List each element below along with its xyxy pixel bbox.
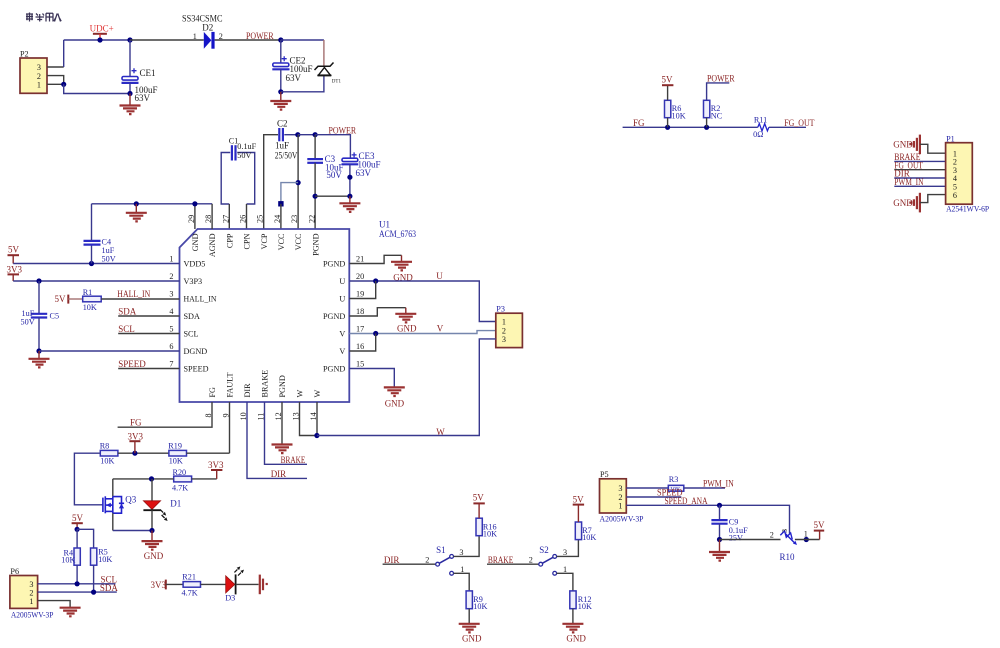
svg-text:3: 3 [459, 548, 463, 557]
svg-text:SPEED: SPEED [118, 359, 146, 369]
U1 left pin names [184, 260, 217, 374]
resistor R11 zigzag [758, 124, 769, 131]
svg-text:6: 6 [953, 191, 957, 200]
svg-text:DT1: DT1 [332, 79, 342, 84]
svg-text:PWM_IN: PWM_IN [894, 177, 924, 187]
U1 bottom pin names [208, 370, 322, 398]
U1 bottom pin numbers [204, 412, 318, 420]
power port 5V at R1 [55, 294, 69, 304]
svg-text:SPEED: SPEED [184, 365, 209, 374]
svg-text:PGND: PGND [323, 312, 345, 321]
zener DT1 [315, 40, 334, 75]
svg-text:GND: GND [462, 633, 482, 643]
wire pin29 riser [194, 204, 196, 229]
power port 5V at R10 [814, 520, 826, 540]
svg-text:BRAKE: BRAKE [261, 370, 270, 398]
power port 3V3 [7, 264, 23, 281]
svg-text:FG: FG [633, 118, 645, 128]
junction 5V split [75, 527, 80, 532]
svg-text:7: 7 [169, 360, 173, 369]
wire 5V to R5 [77, 529, 94, 548]
ground below R12 [562, 624, 583, 633]
junction W [314, 433, 319, 438]
wire FG_OUT to P1 pin3 [894, 169, 945, 171]
ground sideways top [909, 135, 920, 155]
wire pin24 riser [280, 204, 282, 229]
svg-text:3V3: 3V3 [208, 460, 224, 470]
potentiometer R10 [780, 531, 797, 545]
power port 5V at R16 [473, 493, 485, 519]
svg-text:PGND: PGND [323, 260, 345, 269]
svg-text:5V: 5V [662, 74, 674, 84]
svg-text:PGND: PGND [278, 375, 287, 397]
power port 5V [72, 513, 84, 529]
svg-text:3: 3 [502, 335, 506, 344]
svg-text:0Ω: 0Ω [753, 130, 763, 139]
svg-text:W: W [296, 390, 305, 398]
resistor R12 [570, 591, 576, 609]
svg-text:50V: 50V [21, 317, 35, 326]
wire pin21 [349, 255, 401, 263]
svg-text:V3P3: V3P3 [184, 277, 203, 286]
svg-text:SPEED_ANA: SPEED_ANA [665, 496, 708, 506]
ground below R9 [459, 624, 480, 633]
wire Q3 source rail [113, 530, 152, 532]
svg-text:19: 19 [356, 290, 364, 299]
svg-text:R1: R1 [83, 288, 93, 297]
junction AGND gnd [134, 201, 139, 206]
svg-text:W: W [313, 390, 322, 398]
LED D3 [226, 566, 244, 594]
wire D2 to POWER node [215, 39, 281, 41]
svg-text:C5: C5 [50, 312, 60, 321]
svg-text:3: 3 [563, 548, 567, 557]
junction PGND rail left [313, 194, 318, 199]
svg-text:3: 3 [618, 484, 622, 493]
svg-text:P6: P6 [10, 567, 19, 576]
resistor R2 [704, 100, 710, 117]
junction R10 right [804, 537, 809, 542]
wire R10 to 5V [795, 539, 820, 541]
ground pin21 [391, 255, 412, 270]
wire rail to D2 anode [130, 39, 204, 41]
transistor Q3 [103, 479, 124, 531]
svg-text:18: 18 [356, 307, 364, 316]
svg-text:V: V [437, 323, 444, 333]
svg-text:10K: 10K [83, 303, 97, 312]
resistor R8 [100, 450, 118, 456]
svg-text:P5: P5 [600, 470, 609, 479]
svg-text:SDA: SDA [184, 312, 200, 321]
svg-text:16: 16 [356, 342, 364, 351]
junction C9 top [717, 503, 722, 508]
junction R6 [665, 125, 670, 130]
svg-text:W: W [436, 427, 445, 437]
junction D1 top [149, 476, 154, 481]
svg-text:P3: P3 [496, 305, 505, 314]
svg-text:A2005WV-3P: A2005WV-3P [600, 514, 644, 523]
ground sideways bottom [909, 193, 920, 213]
ground below CE1 [120, 94, 141, 115]
svg-text:2: 2 [502, 326, 506, 335]
svg-text:26: 26 [239, 215, 248, 223]
wire pin25 riser to C2 [264, 135, 278, 229]
terminal square pin24 [278, 201, 283, 206]
junction R5 bottom [91, 590, 96, 595]
svg-text:50V: 50V [237, 151, 251, 160]
svg-text:GND: GND [893, 198, 913, 208]
ground pin15 [384, 387, 405, 396]
wire AGND rail [92, 203, 213, 205]
svg-text:SDA: SDA [100, 583, 119, 593]
svg-text:S1: S1 [436, 545, 446, 555]
junction U [373, 278, 378, 283]
resistor R9 [466, 591, 472, 609]
svg-text:U: U [339, 295, 345, 304]
svg-text:2: 2 [425, 556, 429, 565]
svg-text:1: 1 [563, 565, 567, 574]
svg-text:C4: C4 [102, 237, 112, 246]
wire gnd to P1 pin6 [920, 195, 946, 203]
connector P6 [10, 576, 38, 609]
ground below C5 [29, 351, 50, 367]
wire pin26 riser [246, 204, 248, 229]
wire pin28 riser [211, 204, 213, 229]
svg-text:2: 2 [770, 530, 774, 539]
junction C5 bottom [36, 348, 41, 353]
connector P1 [946, 143, 973, 205]
wire P6 pin1 to gnd [38, 601, 71, 608]
resistor R21 [183, 582, 200, 588]
wire R20 right [192, 478, 217, 480]
wire top rail middle [298, 134, 315, 136]
wire 3V3 to pin2 [13, 280, 179, 282]
power port 3V3 [151, 580, 167, 590]
wire 5V to R4 [76, 529, 78, 548]
svg-text:3V3: 3V3 [151, 580, 167, 590]
junction P2 gnd node [61, 82, 66, 87]
wire pin14 W [316, 402, 318, 436]
capacitor C4 [84, 204, 101, 264]
wire SCL pin5 [118, 333, 179, 335]
wire vertical to rail [63, 40, 65, 67]
svg-text:VCC: VCC [277, 233, 286, 250]
resistor R7 [575, 522, 581, 540]
svg-text:22: 22 [307, 215, 316, 223]
svg-text:ACM_6763: ACM_6763 [379, 229, 416, 239]
svg-text:DIR: DIR [271, 469, 287, 479]
power port 5V [8, 245, 20, 264]
resistor R1 [83, 296, 102, 302]
svg-text:FAULT: FAULT [226, 372, 235, 397]
svg-text:1: 1 [37, 80, 41, 89]
capacitor C9 [711, 505, 727, 539]
svg-text:POWER: POWER [329, 125, 357, 135]
wire pin8 FG [118, 402, 212, 427]
wire pin12 PGND [281, 402, 283, 444]
svg-text:Q3: Q3 [125, 495, 136, 505]
svg-text:SCL: SCL [118, 324, 135, 334]
resistor R3 [668, 485, 684, 493]
resistor R6 [665, 100, 671, 117]
wire pin18 [349, 308, 406, 316]
capacitor C3 [307, 135, 323, 229]
UDC+ bar [93, 34, 107, 40]
junction CE1 top [127, 37, 132, 42]
wire P2 pin3 to UDC+ rail [47, 66, 64, 68]
junction CE2 top [278, 37, 283, 42]
wire R12 to gnd [572, 609, 574, 624]
LED D1 [143, 479, 167, 531]
power port 5V at R6 [662, 74, 674, 85]
ground on AGND rail [126, 204, 147, 222]
wire P5 pin1 SPEED_ANA [626, 505, 789, 533]
svg-text:R10: R10 [780, 552, 796, 562]
svg-text:D1: D1 [170, 499, 181, 509]
wire R11 to FG_OUT [769, 126, 806, 128]
wire P2 pin1 stub [47, 83, 64, 85]
svg-text:PGND: PGND [311, 233, 320, 255]
svg-text:10K: 10K [578, 602, 592, 611]
svg-text:C2: C2 [277, 119, 288, 129]
power port 5V at R7 [573, 494, 585, 522]
junction R2 [704, 125, 709, 130]
wire POWER node to DT1 [281, 39, 324, 41]
wire FG rail [623, 126, 758, 128]
switch S2 [539, 555, 557, 576]
svg-text:20: 20 [356, 272, 364, 281]
wire R8 right [118, 452, 169, 454]
svg-text:P1: P1 [946, 134, 955, 143]
wire UDC+ rail left [64, 39, 130, 41]
svg-text:P2: P2 [20, 50, 29, 59]
svg-text:U: U [339, 277, 345, 286]
resistor R20 [174, 476, 192, 482]
svg-text:3: 3 [169, 290, 173, 299]
svg-text:HALL_IN: HALL_IN [184, 295, 217, 304]
svg-text:POWER: POWER [246, 31, 274, 41]
wire R20 left [113, 478, 174, 480]
svg-text:63V: 63V [286, 73, 302, 83]
wire CE2 to DT1 bottom [281, 75, 324, 91]
connector P5 [600, 479, 627, 513]
svg-text:1: 1 [193, 32, 197, 41]
wire R9 to gnd [468, 609, 470, 624]
junction pin29 [192, 201, 197, 206]
junction C5 top [36, 278, 41, 283]
wire pin15 [349, 369, 394, 387]
wire S2 pin3 to R7 [557, 540, 579, 557]
wire 5V to R1 [68, 298, 82, 300]
svg-text:10K: 10K [61, 556, 75, 565]
svg-text:GND: GND [397, 324, 417, 334]
ground below D1 [142, 531, 163, 550]
junction V [373, 331, 378, 336]
svg-text:2: 2 [169, 272, 173, 281]
wire R4 bottom [76, 565, 78, 584]
svg-text:DIR: DIR [243, 383, 252, 398]
junction CE3 mid [347, 175, 352, 180]
svg-text:4: 4 [169, 307, 173, 316]
wire BRAKE to P1 pin2 [894, 160, 945, 162]
svg-text:25/50V: 25/50V [275, 150, 298, 160]
svg-text:PWM_IN: PWM_IN [703, 479, 734, 489]
svg-text:SCL: SCL [184, 330, 199, 339]
wire R5 bottom [93, 565, 95, 592]
junction C9 bottom [717, 537, 722, 542]
svg-text:NC: NC [711, 111, 723, 120]
wire pin16 [349, 334, 375, 352]
resistor R16 [476, 518, 482, 536]
ground sideways after D3 [260, 575, 268, 595]
svg-text:24: 24 [273, 215, 282, 223]
wire P2 down to bottom rail [64, 84, 130, 93]
svg-text:S2: S2 [539, 545, 549, 555]
diode D2 [204, 32, 215, 49]
svg-text:V: V [339, 330, 345, 339]
power port 3V3 [128, 431, 144, 453]
wire PWM_IN to P1 pin5 [894, 185, 945, 187]
svg-text:A2005WV-3P: A2005WV-3P [11, 610, 54, 619]
wire 5V to pin1 [13, 263, 179, 265]
wire C9 to R10 [720, 539, 781, 541]
svg-text:1uF: 1uF [275, 141, 289, 151]
svg-text:R8: R8 [100, 441, 110, 450]
wire pin6 DGND [39, 350, 180, 352]
ground P6 [60, 608, 81, 617]
junction CE3 bottom [347, 194, 352, 199]
wire P2 pin2 stub [47, 76, 64, 85]
wire R21 to D3 [201, 583, 226, 585]
wire R3 to PWM_IN [684, 487, 725, 489]
svg-text:R20: R20 [173, 468, 187, 477]
svg-text:10K: 10K [582, 533, 596, 542]
svg-text:21: 21 [356, 255, 364, 264]
wire R6 bottom [667, 118, 669, 128]
power port 3V3 at R20 [208, 460, 224, 479]
wire pin17 V net [349, 331, 496, 334]
svg-text:R19: R19 [168, 441, 182, 450]
svg-text:10K: 10K [672, 111, 686, 120]
svg-text:A2541WV-6P: A2541WV-6P [946, 204, 989, 213]
wire gnd to P1 pin1 [920, 144, 946, 153]
svg-text:CPP: CPP [225, 233, 234, 248]
wire DIR to S1 [383, 563, 436, 565]
svg-text:15: 15 [356, 360, 364, 369]
U1 top pin names [191, 233, 320, 257]
svg-text:50V: 50V [326, 170, 342, 180]
svg-text:BRAKE: BRAKE [281, 455, 306, 465]
junction CE1 bottom [127, 91, 132, 96]
svg-text:1: 1 [618, 502, 622, 511]
svg-text:10K: 10K [473, 602, 487, 611]
wire P5 pin3 to R3 [626, 487, 668, 489]
capacitor C1 [221, 145, 255, 204]
svg-text:5V: 5V [814, 520, 826, 530]
svg-text:10K: 10K [100, 456, 114, 465]
svg-text:R11: R11 [754, 116, 767, 125]
op-amp U1 body [180, 229, 350, 402]
svg-text:GND: GND [144, 551, 164, 561]
svg-text:25V: 25V [729, 533, 743, 542]
wire W net to P3 [317, 339, 496, 436]
svg-text:27: 27 [221, 215, 230, 223]
ground pin18 [395, 308, 416, 323]
wire R6 top to 5V [667, 85, 669, 100]
svg-text:23: 23 [290, 215, 299, 223]
svg-text:5V: 5V [8, 245, 20, 255]
wire pin23 riser [297, 135, 299, 229]
svg-text:AGND: AGND [208, 233, 217, 257]
svg-text:3V3: 3V3 [128, 431, 144, 441]
svg-text:1: 1 [169, 255, 173, 264]
svg-text:0.1uF: 0.1uF [237, 142, 256, 151]
svg-text:PGND: PGND [323, 365, 345, 374]
svg-text:UDC+: UDC+ [90, 23, 114, 33]
wire SPEED pin7 [118, 368, 179, 370]
switch S1 [436, 555, 454, 576]
svg-text:VCP: VCP [260, 233, 269, 249]
svg-text:CPN: CPN [243, 233, 252, 249]
svg-text:3V3: 3V3 [7, 264, 23, 274]
wire 3V3 to R21 [166, 583, 183, 585]
svg-text:POWER: POWER [707, 74, 735, 84]
svg-text:R21: R21 [182, 572, 196, 581]
wire P5 pin2 SPEED [626, 496, 681, 498]
wire P6 pin3 SCL [38, 583, 116, 585]
wire pin13 W [300, 402, 317, 436]
ground pin12 [272, 445, 293, 454]
svg-text:FG: FG [130, 417, 142, 427]
svg-text:GND: GND [566, 633, 586, 643]
svg-text:HALL_IN: HALL_IN [117, 289, 150, 299]
capacitor C5 [31, 281, 47, 351]
junction pin23 riser top [295, 132, 300, 137]
wire PGND local rail [315, 195, 350, 197]
connector P3 [496, 313, 523, 347]
svg-text:5V: 5V [473, 493, 485, 503]
resistor R19 [169, 450, 187, 456]
svg-text:GND: GND [385, 398, 405, 408]
svg-text:3: 3 [780, 529, 789, 533]
svg-text:5V: 5V [573, 494, 585, 504]
U1 right pin names [323, 260, 345, 374]
svg-text:U: U [436, 271, 443, 281]
svg-text:D2: D2 [202, 22, 213, 32]
wire R19 right to pin9 [187, 452, 230, 454]
title 电源部分 (CJK approximated) [26, 13, 61, 22]
svg-text:10K: 10K [169, 456, 183, 465]
svg-text:SDA: SDA [118, 307, 137, 317]
svg-text:BRAKE: BRAKE [488, 555, 514, 565]
svg-text:D3: D3 [225, 593, 235, 602]
wire VCC jog from pin24 [281, 183, 298, 202]
capacitor CE3 [342, 152, 359, 196]
capacitor C2 [279, 128, 298, 141]
junction 3V3 R8 [132, 451, 137, 456]
wire pin19 [349, 281, 375, 299]
svg-text:R3: R3 [669, 475, 679, 484]
svg-text:63V: 63V [356, 168, 372, 178]
svg-text:V: V [339, 347, 345, 356]
wire R8 left to Q3 gate [74, 453, 102, 505]
svg-text:2: 2 [529, 556, 533, 565]
wire DIR to P1 pin4 [894, 177, 945, 179]
wire P6 pin2 SDA [38, 591, 117, 593]
svg-text:FG: FG [208, 387, 217, 398]
wire R2 top to POWER [707, 83, 730, 100]
wire D3 to gnd [236, 583, 259, 585]
